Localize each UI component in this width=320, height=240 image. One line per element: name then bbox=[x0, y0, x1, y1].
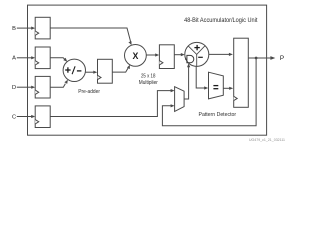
outer box 48-bit unit bbox=[28, 5, 267, 135]
wire A reg to pre-adder bbox=[50, 58, 65, 60]
wire C reg to mux bbox=[50, 91, 171, 117]
wire AD register to multiplier bbox=[112, 67, 128, 72]
op multiplier circle bbox=[124, 45, 146, 67]
mux C P select bbox=[175, 87, 185, 112]
svg-text:D: D bbox=[12, 85, 16, 91]
ALU logic D gate bbox=[185, 55, 194, 62]
svg-text:P: P bbox=[280, 55, 284, 62]
junction dot P feedback bbox=[255, 57, 258, 60]
comparator equals bbox=[209, 72, 224, 99]
register C bbox=[35, 106, 50, 128]
wire P feedback accumulator loop bbox=[162, 58, 256, 126]
wire multiplier to M register bbox=[146, 54, 155, 56]
wire C input bbox=[17, 116, 32, 118]
svg-text:A: A bbox=[12, 56, 16, 62]
svg-text:Pattern Detector: Pattern Detector bbox=[199, 112, 237, 118]
svg-text:25 x 18: 25 x 18 bbox=[141, 73, 156, 79]
wire comparator to P register bbox=[223, 87, 229, 89]
ALU plus sign bbox=[194, 45, 199, 50]
wire A input bbox=[17, 57, 32, 59]
svg-text:B: B bbox=[12, 26, 16, 32]
svg-text:48-Bit Accumulator/Logic Unit: 48-Bit Accumulator/Logic Unit bbox=[184, 17, 258, 24]
ALU minus sign bbox=[198, 56, 203, 58]
register P bbox=[234, 38, 249, 107]
register A bbox=[35, 47, 50, 69]
wire B input bbox=[17, 27, 32, 29]
wire D reg to pre-adder bbox=[50, 84, 65, 88]
svg-text:Multiplier: Multiplier bbox=[139, 80, 158, 86]
op ALU circle bbox=[185, 42, 209, 66]
ALU divider Y bbox=[188, 46, 205, 67]
wire D input bbox=[17, 86, 32, 88]
wire ALU to P register bbox=[209, 53, 230, 55]
wire mux to ALU bbox=[184, 67, 189, 99]
wire ALU to comparator bbox=[196, 66, 205, 88]
wire P output bbox=[248, 57, 270, 59]
register M bbox=[159, 45, 174, 69]
svg-text:Pre-adder: Pre-adder bbox=[78, 89, 100, 95]
register B bbox=[35, 17, 50, 39]
svg-text:X: X bbox=[132, 51, 138, 61]
wire B reg to multiplier bbox=[50, 28, 131, 42]
wire pre-adder to AD register bbox=[85, 71, 93, 73]
register D bbox=[35, 76, 50, 98]
op pre-adder circle bbox=[63, 59, 85, 81]
svg-text:C: C bbox=[12, 114, 16, 120]
wire M register to ALU bbox=[174, 54, 181, 56]
register AD bbox=[98, 59, 113, 83]
svg-text:UG479_c1_21_032111: UG479_c1_21_032111 bbox=[249, 138, 285, 142]
